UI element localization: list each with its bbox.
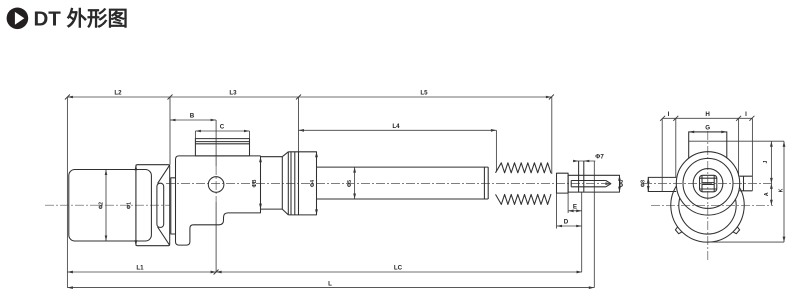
svg-text:Φ2: Φ2: [99, 202, 105, 209]
screw thread spring top: [496, 163, 552, 173]
ext flange: [169, 97, 171, 165]
dim B: [170, 119, 216, 121]
dimension labels: [99, 90, 785, 288]
svg-text:G: G: [705, 125, 710, 132]
cross hole: [579, 161, 584, 192]
ext L5 right: [551, 97, 553, 174]
bell cone: [158, 165, 170, 245]
screw thread spring bottom: [496, 194, 552, 204]
dim phi5 tube: [354, 167, 356, 199]
centerline end view vertical: [707, 131, 709, 262]
dim V2 flange: [135, 165, 137, 246]
extension lines: [67, 97, 784, 288]
dim L1 LC: [67, 271, 582, 273]
gearbox housing: [176, 156, 261, 245]
dim G: [689, 131, 727, 133]
ext L right: [593, 161, 595, 288]
svg-text:K: K: [779, 188, 785, 192]
dim phi8 tab: [647, 177, 649, 191]
ext LC right: [581, 192, 583, 272]
sight hole: [208, 177, 224, 193]
part outlines: [69, 139, 620, 246]
svg-text:L4: L4: [392, 123, 400, 130]
bearing rings: [288, 152, 298, 215]
motor body: [69, 170, 152, 242]
svg-text:J: J: [763, 160, 769, 163]
ext K bottom: [708, 241, 785, 243]
dimension lines: [67, 97, 784, 288]
centerlines: [45, 131, 773, 262]
ext E left: [567, 193, 569, 213]
svg-text:Φ5: Φ5: [347, 180, 353, 187]
centerline gearbox hole vertical: [215, 166, 217, 202]
svg-text:C: C: [220, 124, 225, 131]
svg-text:L5: L5: [420, 90, 428, 97]
svg-text:L: L: [328, 280, 332, 287]
square drive: [700, 175, 717, 192]
dim L: [67, 287, 594, 289]
ext D left: [556, 193, 558, 228]
svg-text:A: A: [764, 192, 770, 196]
dim phi6 block: [619, 175, 621, 192]
svg-text:ΦB: ΦB: [252, 179, 258, 187]
svg-text:L2: L2: [114, 90, 122, 97]
lower circle: [671, 186, 744, 242]
svg-text:Φ8: Φ8: [641, 180, 647, 187]
centerline end view lower: [651, 204, 773, 206]
shaft boss: [157, 183, 164, 227]
dim phiB gearbox right face: [260, 156, 262, 213]
dim V1 motor: [105, 170, 107, 242]
ext C stubs: [194, 131, 196, 139]
ring circle: [683, 158, 733, 208]
ext L4 right: [495, 130, 497, 171]
svg-text:LC: LC: [394, 265, 403, 272]
dim chain L2 L3 L5: [67, 96, 551, 98]
rod neck: [557, 173, 569, 193]
ext motor left: [66, 97, 68, 288]
svg-text:Φ1: Φ1: [127, 202, 133, 209]
svg-text:H: H: [705, 111, 710, 118]
dim J A: [770, 141, 772, 205]
svg-text:DT 外形图: DT 外形图: [34, 7, 129, 31]
upper circle: [676, 152, 739, 215]
ext hole center B/L1/LC: [215, 120, 217, 166]
ext cylinder left: [298, 97, 300, 152]
centerline screw axis: [166, 183, 612, 185]
terminal cap: [195, 139, 249, 156]
svg-text:L3: L3: [229, 90, 237, 97]
svg-text:Φ7: Φ7: [595, 154, 604, 161]
cone2: [282, 152, 288, 215]
notch tab right: [733, 227, 740, 234]
dim E: [568, 210, 582, 212]
front cylinder: [299, 152, 317, 215]
flange plate: [136, 165, 170, 246]
dim L4: [299, 129, 497, 131]
arrowheads: [67, 96, 785, 289]
dim C: [195, 130, 249, 132]
slash ticks on chain dims: [65, 95, 755, 275]
header logo bullet: [7, 7, 29, 29]
svg-text:E: E: [573, 203, 577, 210]
svg-text:Φ4: Φ4: [310, 180, 316, 187]
notch tab left: [675, 227, 682, 234]
dim phi4 cylinder: [316, 152, 318, 215]
lower inner circle: [679, 198, 736, 234]
hub circle: [693, 169, 723, 199]
right tab: [740, 176, 753, 191]
end view outlines: [648, 132, 752, 242]
outer tube: [317, 167, 489, 199]
centerline end view upper: [643, 182, 773, 184]
svg-text:D: D: [564, 219, 569, 226]
inner slot: [571, 181, 611, 187]
svg-text:L1: L1: [136, 265, 144, 272]
ext I lines end view: [661, 118, 663, 191]
svg-text:I: I: [668, 111, 670, 118]
dim I H I: [663, 117, 752, 119]
svg-text:Φ6: Φ6: [619, 180, 625, 187]
svg-text:B: B: [190, 113, 195, 120]
dim K: [783, 141, 785, 242]
ext JK top: [689, 140, 784, 142]
rod end block: [568, 175, 619, 192]
centerline motor axis: [45, 204, 170, 206]
dim D: [557, 225, 582, 227]
neck: [261, 157, 283, 209]
left tab: [648, 177, 676, 191]
dim phi7 leader: [574, 160, 595, 162]
top housing: [689, 132, 727, 158]
svg-text:I: I: [745, 111, 747, 118]
flange ring: [171, 178, 176, 234]
